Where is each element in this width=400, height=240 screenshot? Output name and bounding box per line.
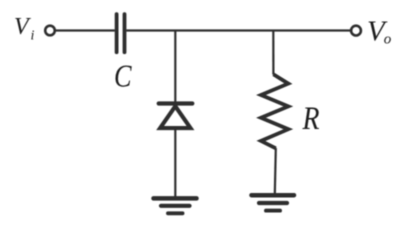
svg-text:i: i — [31, 29, 35, 44]
svg-text:R: R — [302, 101, 320, 137]
svg-text:V: V — [14, 14, 31, 40]
svg-text:C: C — [114, 59, 132, 94]
svg-text:o: o — [384, 31, 392, 47]
